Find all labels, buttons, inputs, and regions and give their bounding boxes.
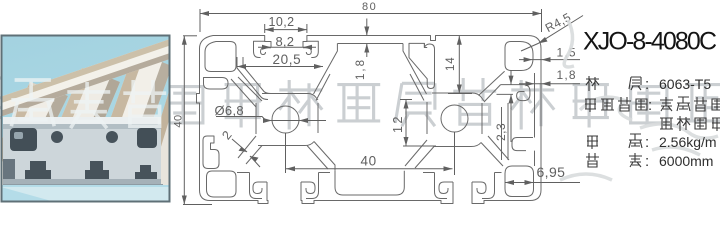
shading on face	[3, 179, 161, 185]
bottom-right D cavity	[505, 166, 534, 197]
boss1 strut down-left pair	[238, 136, 256, 158]
svg-text:Ø6,8: Ø6,8	[215, 103, 244, 118]
bar 4 partial right	[134, 42, 212, 216]
photo border	[2, 36, 170, 202]
svg-text::: :	[645, 134, 649, 151]
svg-text:12: 12	[391, 114, 405, 133]
top-right D cavity	[505, 42, 533, 71]
boss 2 cap lines	[432, 93, 484, 101]
svg-text:6,95: 6,95	[537, 164, 566, 180]
bar 1	[0, 82, 68, 214]
svg-text:10,2: 10,2	[269, 15, 295, 29]
svg-text:2.56kg/m: 2.56kg/m	[659, 134, 717, 150]
cursive watermark squiggles	[560, 20, 718, 180]
svg-text:80: 80	[362, 1, 377, 13]
svg-text:8,2: 8,2	[276, 34, 295, 49]
svg-text:40: 40	[173, 114, 185, 127]
dimension diameter 6,8	[215, 103, 327, 123]
dimension 6,95	[505, 164, 580, 185]
upper standing bar profiles	[0, 39, 212, 218]
screw hole 1	[272, 106, 299, 133]
spec row 3: second treatment	[660, 116, 720, 131]
photo background	[0, 0, 1, 1]
T-slot 1 hooks (top)	[254, 41, 265, 57]
dimension 10,2	[265, 15, 307, 33]
screw hole 2	[441, 105, 468, 132]
top hook cavity right-middle	[409, 43, 435, 88]
dimension 40 left	[173, 36, 213, 205]
bar 3	[80, 52, 172, 218]
svg-text:1,8: 1,8	[355, 58, 367, 80]
svg-text:20,5: 20,5	[273, 52, 302, 67]
watermark band: company name across page	[0, 78, 720, 130]
svg-text::: :	[645, 76, 649, 93]
dimension 1,8 right	[519, 68, 580, 86]
svg-text::: :	[645, 153, 649, 170]
dimension 12	[391, 100, 436, 147]
dark cavities of cross-section	[10, 128, 37, 151]
bottom-left closed channel cavity	[207, 171, 237, 197]
bar 2	[26, 68, 120, 216]
bottom slot 2 hooks	[439, 182, 453, 194]
boss1 strut down-right pair	[314, 142, 335, 171]
dimension R4,5	[521, 10, 583, 51]
cross-section block of 4080 profile	[3, 117, 163, 187]
right mid hook slab	[501, 85, 530, 101]
dimension 2 diagonal	[219, 128, 260, 167]
spec row 2: surface treatment	[585, 97, 647, 112]
spec row 1: material	[586, 76, 641, 91]
mid-left G hook cavity	[203, 136, 219, 169]
boss 1 cap lines	[262, 94, 318, 101]
dimension 14	[445, 36, 472, 94]
bottom T-slot openings	[25, 161, 51, 182]
profile outer outline	[197, 36, 542, 204]
dimension 40 middle	[286, 132, 455, 175]
long front bar	[0, 39, 170, 117]
svg-text:6063-T5: 6063-T5	[659, 76, 711, 92]
dimension 1,5 right	[519, 46, 580, 63]
svg-text:XJO-8-4080C: XJO-8-4080C	[583, 28, 717, 56]
left upper strut pair	[231, 79, 256, 107]
left trapezoid cavity walls	[237, 57, 268, 100]
svg-text:40: 40	[361, 154, 377, 169]
watermark over photo	[11, 80, 166, 128]
svg-text:14: 14	[445, 57, 457, 71]
boss2 strut down-left pair	[405, 140, 427, 166]
dimension 2,3	[494, 70, 514, 142]
central ceiling cavity	[337, 43, 403, 45]
svg-text:2,3: 2,3	[494, 123, 508, 141]
photo of aluminium profile	[0, 35, 212, 218]
spec row 4: weight	[587, 134, 642, 149]
boss2 strut up-right pair	[479, 71, 505, 95]
dimension 20,5	[237, 52, 323, 69]
bottom slot 1 hooks	[253, 182, 267, 194]
left mid narrow channel	[204, 78, 229, 90]
boss2 strut down-right pair	[481, 143, 503, 167]
right mid step shelf	[512, 138, 533, 151]
spec row 5: length	[586, 153, 642, 167]
svg-text:6000mm: 6000mm	[659, 153, 713, 169]
dimension 80 top	[200, 1, 542, 32]
dimension 1,8 top wall	[355, 19, 369, 81]
bottom trough	[335, 171, 404, 195]
svg-text::: :	[648, 97, 652, 114]
svg-text:1,8: 1,8	[557, 68, 577, 82]
floor in front	[1, 185, 170, 202]
top-left closed channel cavity	[205, 42, 236, 72]
dimension 8,2	[258, 34, 316, 50]
right mid twin walls	[534, 73, 536, 138]
